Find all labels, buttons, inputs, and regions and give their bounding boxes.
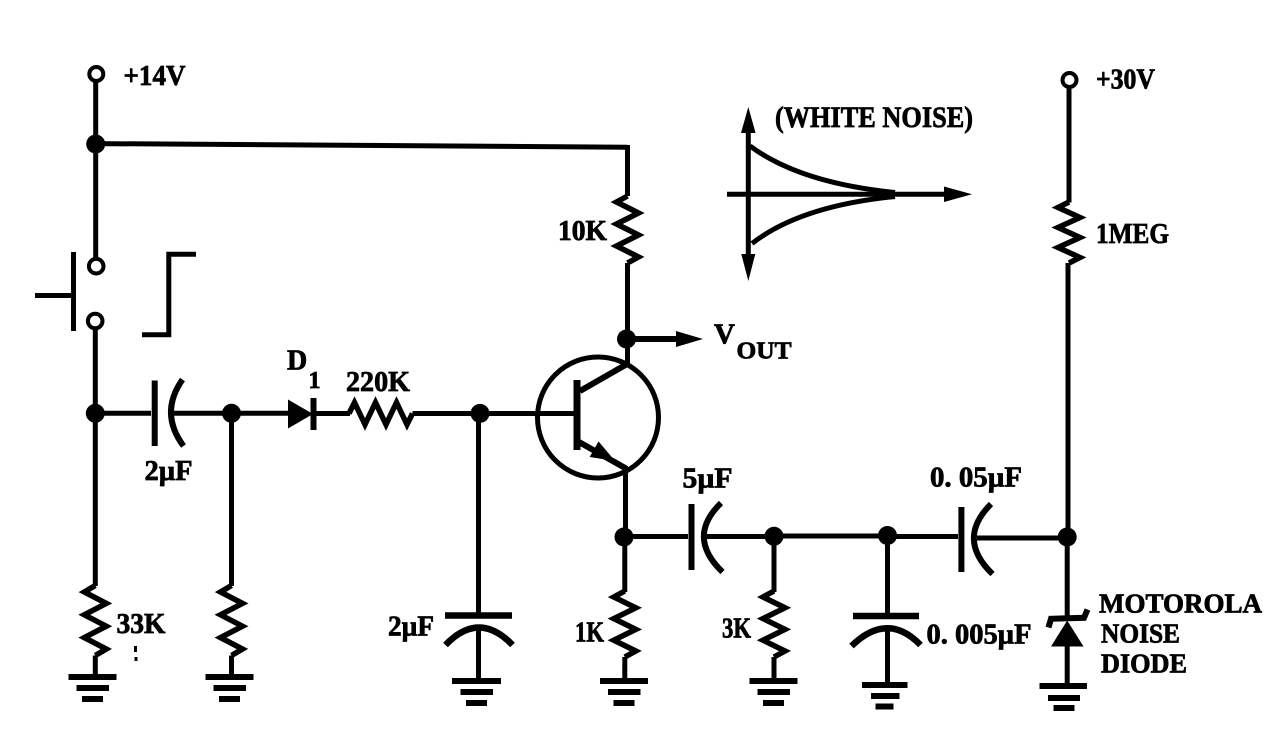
svg-text:2µF: 2µF [388, 612, 434, 643]
svg-text:33K: 33K [117, 609, 166, 640]
ground G1 [69, 677, 117, 699]
wire base node to transistor base [480, 411, 574, 416]
wire down to 10K [625, 145, 630, 196]
transistor Q1 base bar [574, 380, 581, 450]
node right junction [1058, 528, 1077, 547]
switch S1 actuator bar [71, 252, 76, 331]
white noise sketch horizontal axis [727, 192, 950, 197]
wire diode to 220K [314, 411, 351, 416]
white noise sketch vertical axis [746, 122, 751, 268]
zener diode MOTOROLA cathode bar [1049, 610, 1088, 628]
ground G4 [600, 681, 648, 703]
svg-text:(WHITE NOISE): (WHITE NOISE) [775, 101, 973, 134]
terminal +14V [89, 67, 103, 81]
capacitor C2 2uF shunt curved plate [446, 628, 513, 646]
svg-text:5µF: 5µF [683, 464, 733, 495]
svg-text:MOTOROLA: MOTOROLA [1099, 589, 1263, 619]
capacitor 5uF curved plate [704, 503, 723, 572]
wire R2 to ground [229, 656, 234, 678]
wire 0.05 cap to right node [977, 536, 1067, 541]
svg-text:+30V: +30V [1096, 65, 1155, 96]
node left mid junction [86, 404, 105, 423]
arrow VOUT head [676, 331, 703, 347]
transistor Q1 collector lead [580, 364, 628, 392]
ground G7 [1040, 686, 1088, 708]
node mid junction [222, 404, 241, 423]
transistor Q1 emitter lead [579, 442, 626, 469]
wire top bus [96, 144, 628, 148]
wire left rail down from node to 33K [93, 413, 98, 586]
zener diode triangle [1051, 621, 1084, 647]
wire 0.005 node down to cap [885, 536, 890, 616]
wire 220K to base node [413, 411, 481, 416]
transistor Q1 emitter arrow [590, 441, 615, 461]
wire cap to node [169, 411, 232, 416]
resistor 220K [349, 403, 413, 425]
wire emitter down [623, 466, 628, 537]
ground G6 [862, 685, 908, 707]
diode D1 triangle [288, 400, 313, 429]
node base junction [471, 404, 490, 423]
white noise upper curve [750, 146, 895, 193]
wire shunt cap to ground [476, 628, 481, 681]
node emitter junction [615, 528, 634, 547]
svg-text:0. 05µF: 0. 05µF [930, 463, 1022, 494]
resistor 1MEG [1058, 202, 1080, 263]
wire 0.005 node to 0.05 cap [888, 534, 959, 539]
diode D1 cathode bar [311, 398, 317, 430]
resistor R2 unlabeled [221, 586, 243, 656]
wire 1MEG to right node [1066, 263, 1071, 537]
switch S1 top contact [89, 259, 104, 274]
step waveform symbol [142, 254, 196, 334]
wire second pulldown [229, 413, 234, 586]
resistor 1K [614, 591, 636, 657]
svg-text:10K: 10K [558, 216, 607, 247]
wire node to diode [232, 411, 290, 416]
capacitor 0.005uF curved plate [852, 628, 921, 646]
wire 10K to collector node [625, 263, 630, 365]
svg-text:V: V [714, 319, 735, 351]
svg-text:OUT: OUT [737, 339, 792, 365]
wire 33K to ground [93, 656, 98, 678]
wire +30V down [1067, 88, 1072, 203]
wire 1K to ground [622, 657, 627, 680]
wire 5uF to 3K node [706, 534, 774, 539]
node 3K junction [765, 527, 784, 546]
artifact specks [134, 646, 137, 652]
svg-text:+14V: +14V [124, 60, 186, 92]
svg-text:1MEG: 1MEG [1096, 219, 1169, 250]
wire zener to ground [1065, 646, 1070, 684]
wire 3K node to 0.005 node [774, 534, 888, 539]
svg-text:DIODE: DIODE [1101, 649, 1187, 679]
ground G3 [452, 681, 501, 703]
capacitor C2 2uF shunt top plate [445, 612, 512, 619]
resistor 33K [84, 586, 106, 656]
svg-text:2µF: 2µF [145, 456, 193, 487]
switch S1 actuator stem [35, 293, 71, 298]
arrow right [944, 187, 972, 203]
wire VOUT arrow shaft [634, 336, 684, 342]
capacitor 0.05uF curved plate [974, 504, 993, 574]
switch S1 bottom contact [88, 314, 103, 329]
wire emitter node down to 1K [622, 537, 627, 592]
wire 0.005 cap to ground [885, 628, 890, 684]
wire switch to mid bus [93, 329, 98, 414]
ground G5 [750, 681, 798, 703]
svg-text:220K: 220K [346, 367, 410, 398]
resistor 10K [617, 196, 639, 263]
node collector junction [617, 330, 636, 349]
wire 3K to ground [772, 657, 777, 680]
wire +14V rail to switch [93, 144, 98, 259]
wire node to zener [1065, 537, 1070, 617]
capacitor 0.05uF flat plate [958, 507, 964, 572]
wire bottom bus emitter to 5uF [624, 534, 688, 539]
ground G2 [206, 677, 254, 699]
transistor Q1 circle [538, 357, 659, 478]
white noise lower curve [752, 197, 895, 244]
arrow up [741, 107, 756, 133]
capacitor C1 2uF flat plate [152, 381, 158, 447]
node junction top-left [86, 135, 105, 154]
node 0.005uF junction [878, 526, 897, 545]
wire 3K node down [772, 537, 777, 592]
arrow down [741, 254, 755, 281]
svg-text:0. 005µF: 0. 005µF [927, 620, 1032, 651]
svg-text:1: 1 [309, 368, 321, 394]
svg-text:D: D [287, 346, 307, 377]
capacitor 5uF flat plate [689, 504, 695, 570]
svg-text:NOISE: NOISE [1101, 619, 1180, 649]
wire mid bus left segment [96, 411, 152, 416]
wire base node down to shunt cap [476, 414, 481, 617]
wire from +14V terminal down [93, 82, 98, 144]
resistor 3K [763, 591, 785, 657]
terminal +30V [1063, 73, 1077, 87]
svg-text:1K: 1K [575, 618, 604, 649]
svg-text:3K: 3K [722, 614, 751, 645]
capacitor 0.005uF top plate [853, 613, 919, 620]
capacitor C1 2uF curved plate [171, 380, 184, 447]
